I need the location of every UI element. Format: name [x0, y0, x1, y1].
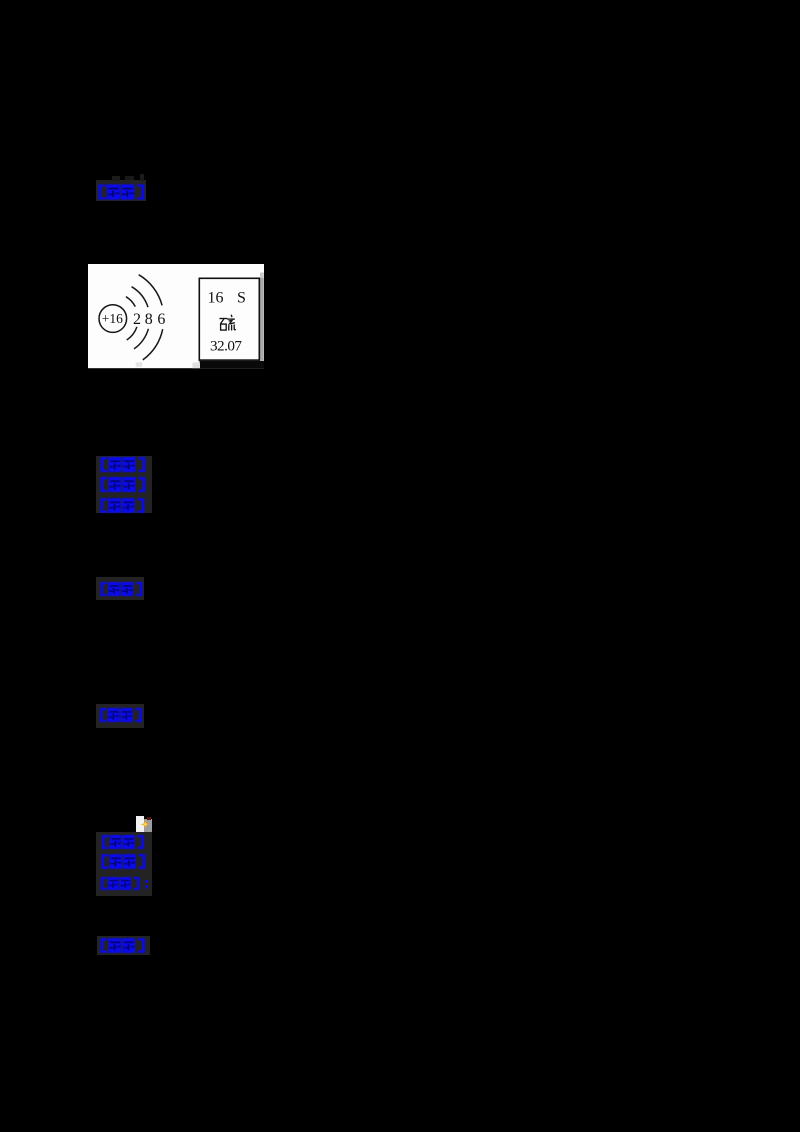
svg-text:8: 8 [145, 310, 153, 327]
nucleus circle +16 [99, 304, 127, 332]
svg-text:S: S [237, 289, 246, 306]
shell arcs [126, 296, 135, 306]
element cell box [199, 278, 259, 360]
label 【答案】 L1 [98, 184, 145, 200]
white image background [88, 264, 264, 368]
autocorrect icon with orange star [136, 816, 144, 832]
halo behind label L10 [97, 936, 150, 955]
diagram image: sulfur atom structure + element cell [88, 264, 265, 369]
label 【详解】 L10 [100, 938, 146, 953]
cell text: 硫 (drawn glyph) [219, 314, 235, 330]
label 【分析】 L4 [100, 498, 145, 513]
light gray handle left of black bar [193, 362, 201, 368]
svg-text:2: 2 [133, 310, 141, 327]
halo behind labels L7-L9 [96, 832, 153, 896]
dark red speck on icon [147, 817, 151, 820]
faint gray handle bottom-center of image [136, 362, 143, 366]
halo behind answer label 1 [96, 180, 146, 201]
label 【点睛】 L6 [98, 708, 144, 722]
black bar under element cell [200, 360, 265, 367]
halo behind label L6 [96, 704, 145, 728]
svg-text:+16: +16 [102, 310, 123, 325]
svg-text:16: 16 [208, 289, 224, 306]
ghost specks of text line above label 1 [112, 176, 120, 182]
gray shadow column right of element cell [260, 272, 264, 278]
label 【答案】 L7 [100, 835, 146, 849]
halo behind label L5 [96, 577, 145, 600]
label 【解析】 L3 [100, 477, 146, 492]
colon after L9 [145, 879, 149, 890]
label 【解析】 L8 [101, 854, 146, 869]
svg-text:32.07: 32.07 [210, 337, 242, 354]
label 【分析】 L9 [96, 877, 145, 890]
halo behind labels L2-L4 [96, 456, 152, 513]
svg-text:6: 6 [157, 310, 165, 327]
label 【答案】 L2 [100, 457, 146, 472]
label 【详解】 L5 [99, 582, 144, 596]
